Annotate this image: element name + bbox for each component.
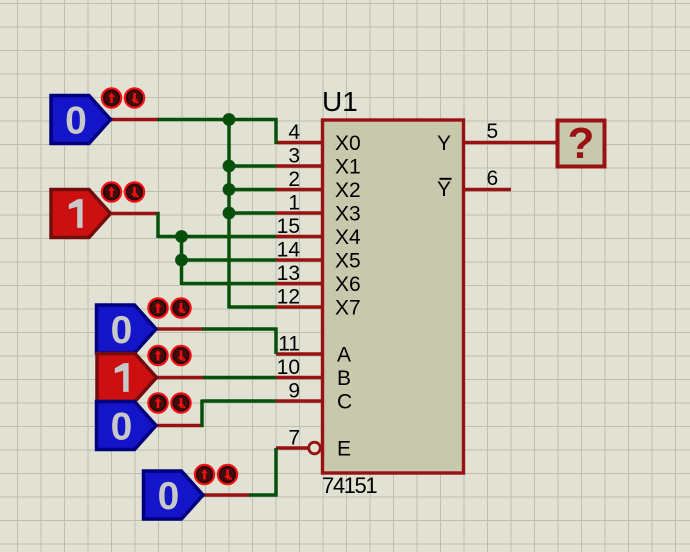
- junction node net1 @ X5: [175, 254, 188, 267]
- multiplexer IC U1 74151 body: [323, 120, 464, 473]
- wire: net1 horizontal to X4: [158, 235, 276, 239]
- svg-text:3: 3: [288, 145, 300, 168]
- logic state input IN1 = 1 (red): [51, 190, 111, 238]
- wire: netA elbow down to pin 11: [274, 328, 278, 355]
- svg-text:X2: X2: [335, 179, 361, 202]
- svg-text:6: 6: [487, 167, 499, 190]
- svg-text:0: 0: [158, 475, 180, 518]
- svg-text:X1: X1: [335, 156, 361, 179]
- wire: netC horizontal to pin 9: [202, 399, 276, 403]
- svg-text:X6: X6: [335, 273, 361, 296]
- svg-text:0: 0: [111, 309, 133, 352]
- svg-text:4: 4: [288, 121, 300, 144]
- logic state input IN0 = 0 (blue): [51, 96, 111, 144]
- INA down-toggle button: [172, 299, 191, 318]
- svg-text:74151: 74151: [322, 473, 377, 498]
- INC down-toggle button: [172, 394, 191, 413]
- wire: IN0 device pin (dark red): [111, 118, 160, 122]
- svg-text:14: 14: [277, 239, 301, 262]
- wire: netE horizontal: [249, 493, 278, 497]
- svg-text:11: 11: [278, 333, 300, 356]
- pin name Y-bar with overline: [437, 178, 452, 201]
- wire: net1 vertical: [180, 237, 184, 286]
- svg-text:A: A: [337, 344, 351, 367]
- svg-text:9: 9: [288, 380, 300, 403]
- wire: net1 elbow down: [156, 212, 160, 238]
- U1 pin stub X0 (pin 4): [276, 141, 323, 145]
- svg-text:2: 2: [288, 168, 300, 191]
- svg-text:1: 1: [288, 192, 300, 215]
- svg-text:X7: X7: [335, 297, 361, 320]
- svg-text:0: 0: [111, 406, 133, 449]
- wire: net0 elbow down to pin 4 row: [274, 118, 278, 144]
- junction node net0 @ X3: [223, 207, 236, 220]
- svg-text:?: ?: [568, 119, 595, 168]
- wire: netB horizontal to pin 10: [203, 376, 276, 380]
- INB up-toggle button: [149, 346, 168, 365]
- svg-text:E: E: [337, 438, 351, 461]
- svg-text:X0: X0: [335, 132, 361, 155]
- U1 pin stub A (pin 11): [276, 352, 323, 356]
- svg-text:U1: U1: [322, 86, 358, 117]
- IN1 up-toggle button: [102, 183, 121, 202]
- U1 pin stub X7 (pin 12): [276, 305, 323, 309]
- svg-text:7: 7: [288, 427, 300, 450]
- U1 pin stub C (pin 9): [276, 399, 323, 403]
- IN1 down-toggle button: [125, 183, 144, 202]
- U1 pin stub X3 (pin 1): [276, 211, 323, 215]
- wire: IN1 device pin (dark red): [111, 212, 160, 216]
- U1 pin stub E (pin 7): [276, 446, 308, 450]
- wire: net0 main vertical bus: [227, 120, 231, 309]
- wire: INB device pin (dark red): [157, 376, 205, 380]
- wire: INC device pin (dark red): [156, 424, 204, 428]
- wire: netE vertical up to pin 7: [274, 448, 278, 497]
- U1 pin stub X2 (pin 2): [276, 188, 323, 192]
- wire: net0 branch to X7: [229, 305, 276, 309]
- svg-text:B: B: [337, 367, 351, 390]
- wire: net1 branch to X6: [182, 282, 277, 286]
- U1 pin stub X6 (pin 13): [276, 282, 323, 286]
- svg-text:0: 0: [65, 100, 87, 143]
- INE up-toggle button: [195, 465, 214, 484]
- INE down-toggle button: [218, 465, 237, 484]
- wire: netA horizontal: [202, 327, 278, 331]
- INB down-toggle button: [172, 346, 191, 365]
- junction node net0 @ top: [223, 113, 236, 126]
- svg-text:15: 15: [277, 215, 300, 238]
- wire: net1 branch to X5: [182, 258, 277, 262]
- wire: net0 horizontal to X0 elbow: [158, 118, 278, 122]
- svg-text:Y: Y: [437, 178, 451, 201]
- svg-text:X5: X5: [335, 250, 361, 273]
- junction node net1 @ X4: [175, 230, 188, 243]
- U1 pin stub X1 (pin 3): [276, 164, 323, 168]
- U1 pin stub Y-bar (pin 6): [464, 188, 512, 192]
- logic state input C = 0 (blue): [97, 402, 157, 450]
- junction node net0 @ X2: [223, 183, 236, 196]
- wire: net0 branch to X1: [229, 164, 276, 168]
- U1 pin stub B (pin 10): [276, 376, 323, 380]
- wire: INA device pin (dark red): [156, 327, 203, 331]
- svg-text:X4: X4: [335, 226, 361, 249]
- wire: INE device pin (dark red): [203, 493, 251, 497]
- U1 pin stub X5 (pin 14): [276, 258, 323, 262]
- active-low bubble on pin 7 E: [309, 442, 321, 454]
- svg-text:X3: X3: [335, 203, 361, 226]
- svg-text:C: C: [337, 391, 352, 414]
- IN0 up-toggle button: [102, 89, 121, 108]
- logic state input E = 0 (blue): [144, 471, 204, 519]
- U1 pin stub Y (pin 5) to probe: [464, 141, 558, 145]
- svg-text:5: 5: [487, 120, 499, 143]
- logic probe output indicator "?": [558, 119, 605, 168]
- svg-text:10: 10: [277, 356, 300, 379]
- logic state input B = 1 (red): [97, 354, 157, 402]
- U1 pin stub X4 (pin 15): [276, 235, 323, 239]
- INC up-toggle button: [149, 394, 168, 413]
- wire: netC elbow up: [200, 400, 204, 428]
- wire: net0 branch to X2: [229, 188, 276, 192]
- logic state input A = 0 (blue): [97, 305, 157, 353]
- svg-text:12: 12: [277, 286, 300, 309]
- INA up-toggle button: [149, 299, 168, 318]
- svg-text:Y: Y: [437, 132, 451, 155]
- svg-text:13: 13: [277, 262, 300, 285]
- wire: net0 branch to X3: [229, 211, 276, 215]
- IN0 down-toggle button: [125, 89, 144, 108]
- junction node net0 @ X1: [223, 160, 236, 173]
